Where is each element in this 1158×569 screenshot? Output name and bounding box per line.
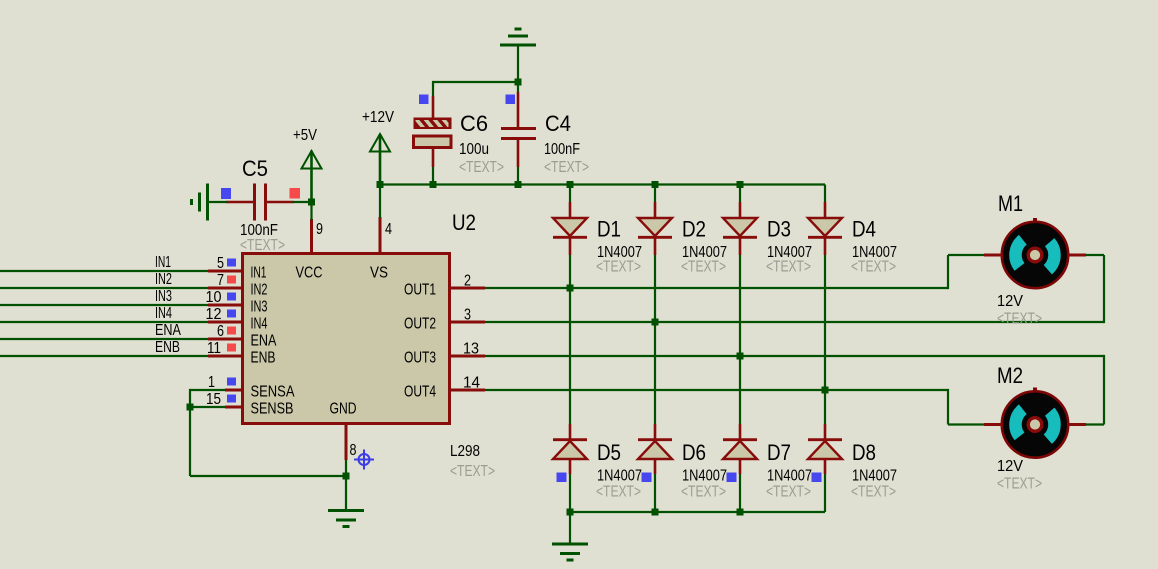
diode D2 (1N4007, cathode down) <box>638 218 672 236</box>
diode D1 (1N4007, cathode down) <box>553 218 587 236</box>
wire GND pin to ground <box>345 460 347 476</box>
svg-text:3: 3 <box>464 307 471 324</box>
ground at top (flipped up) <box>500 44 536 47</box>
ground at C5 (rotated left) <box>206 184 209 221</box>
marker square D5 <box>557 473 567 483</box>
svg-text:<TEXT>: <TEXT> <box>766 259 811 276</box>
svg-text:D4: D4 <box>852 217 876 242</box>
capacitor C5 right pin <box>264 201 294 204</box>
pin marker square IN3 <box>227 293 236 301</box>
U2 pin SENSB stub (pin 15) <box>225 406 241 409</box>
wire net ENB <box>0 355 208 357</box>
U2 pin VS stub (pin 4) <box>379 217 382 253</box>
wire +5V node to pin 9 <box>310 201 312 220</box>
svg-text:13: 13 <box>463 341 479 358</box>
U2 pin OUT3 stub (pin 13) <box>450 355 485 358</box>
svg-text:1N4007: 1N4007 <box>767 468 812 485</box>
svg-text:GND: GND <box>330 401 357 418</box>
svg-text:5: 5 <box>217 255 224 272</box>
svg-text:12V: 12V <box>997 458 1023 475</box>
marker square C4 <box>506 95 516 105</box>
svg-text:1N4007: 1N4007 <box>682 468 727 485</box>
motor M2 <box>1002 391 1068 457</box>
svg-text:OUT4: OUT4 <box>404 384 436 401</box>
ground under U2 <box>328 509 364 512</box>
wire rail to diode D4 <box>824 185 826 203</box>
svg-text:OUT1: OUT1 <box>404 282 436 299</box>
wire rail to diode D2 <box>654 185 656 203</box>
wire D7 to ground rail <box>739 474 741 512</box>
wire D8 to ground rail <box>824 474 826 512</box>
wire net IN4 <box>0 321 208 323</box>
svg-text:<TEXT>: <TEXT> <box>851 484 896 501</box>
marker square C5 left <box>221 188 231 199</box>
svg-text:VCC: VCC <box>296 265 323 282</box>
capacitor C4 top lead <box>517 82 519 92</box>
U2 pin IN2 stub (pin 7) <box>208 287 241 290</box>
junction rail at VS <box>377 181 384 188</box>
U2 pin OUT2 stub (pin 3) <box>450 321 485 324</box>
capacitor C4 bottom lead <box>517 139 520 167</box>
svg-text:ENB: ENB <box>155 339 180 356</box>
diode D8 top lead <box>824 424 827 441</box>
wire net IN3 <box>0 304 208 306</box>
svg-text:ENB: ENB <box>251 350 276 367</box>
marker square C6 <box>419 95 429 105</box>
marker square D6 <box>642 473 652 483</box>
wire D4 column down <box>824 255 826 424</box>
marker square C5 right <box>290 188 301 199</box>
svg-text:IN4: IN4 <box>251 316 268 333</box>
U2 pin ENB stub (pin 11) <box>208 355 241 358</box>
U2 pin IN3 stub (pin 10) <box>208 304 241 307</box>
wire net ENA <box>0 338 208 340</box>
svg-text:SENSA: SENSA <box>251 384 295 401</box>
svg-text:<TEXT>: <TEXT> <box>766 484 811 501</box>
diode D5 (1N4007, cathode up) <box>553 441 587 459</box>
U2 pin IN1 stub (pin 5) <box>208 270 241 273</box>
U2 pin OUT1 stub (pin 2) <box>450 287 485 290</box>
diode D7 top lead <box>739 424 742 441</box>
diode D7 (1N4007, cathode up) <box>723 441 757 459</box>
wire rail to diode D3 <box>739 185 741 203</box>
svg-text:SENSB: SENSB <box>251 401 294 418</box>
motor M2 right pin <box>1068 423 1086 426</box>
svg-text:D7: D7 <box>767 440 791 465</box>
junction D3 column at OUT3 <box>737 353 744 360</box>
wire D2 column down <box>654 255 656 424</box>
svg-text:9: 9 <box>316 221 323 238</box>
svg-text:<TEXT>: <TEXT> <box>681 259 726 276</box>
svg-text:100nF: 100nF <box>544 141 580 158</box>
svg-text:IN1: IN1 <box>155 254 171 271</box>
wire D3 column down <box>739 255 741 424</box>
svg-text:100u: 100u <box>459 141 489 158</box>
svg-text:ENA: ENA <box>155 322 181 339</box>
svg-text:U2: U2 <box>452 210 476 235</box>
junction D4 column at OUT4 <box>822 387 829 394</box>
svg-text:D2: D2 <box>682 217 706 242</box>
wire +12V rail <box>380 183 825 185</box>
U2 pin IN4 stub (pin 12) <box>208 321 241 324</box>
diode D6 (1N4007, cathode up) <box>638 441 672 459</box>
motor M1 <box>1002 222 1068 288</box>
capacitor C6 bottom lead <box>432 148 435 168</box>
wire C5 to ground <box>208 201 227 203</box>
wire D5 to ground rail <box>569 474 571 512</box>
svg-text:<TEXT>: <TEXT> <box>596 484 641 501</box>
origin marker (blue crosshair) <box>354 450 374 470</box>
capacitor C5 left pin <box>226 201 253 204</box>
wire SENSB <box>190 406 225 408</box>
svg-text:<TEXT>: <TEXT> <box>997 476 1042 493</box>
svg-text:C5: C5 <box>242 156 268 181</box>
wire D1 column down <box>569 255 571 424</box>
svg-text:D6: D6 <box>682 440 706 465</box>
svg-text:M1: M1 <box>998 191 1023 216</box>
svg-text:<TEXT>: <TEXT> <box>997 311 1042 328</box>
capacitor C6 positive plate (hatched) <box>412 114 453 131</box>
svg-text:+5V: +5V <box>293 127 317 144</box>
svg-text:IN1: IN1 <box>251 265 267 282</box>
junction ground rail at D5 <box>567 509 574 516</box>
svg-text:M2: M2 <box>997 363 1023 388</box>
junction +5V / C5 / pin9 <box>308 199 315 206</box>
diode D4 (1N4007, cathode down) <box>808 218 842 236</box>
ground at bottom rail <box>552 543 588 546</box>
diode D4 top lead <box>824 202 827 219</box>
svg-text:D5: D5 <box>597 440 621 465</box>
svg-text:<TEXT>: <TEXT> <box>450 463 495 480</box>
junction rail at C6 <box>430 181 437 188</box>
junction D2 column at OUT2 <box>652 319 659 326</box>
wire SENSA to SENSB junction <box>190 389 225 391</box>
svg-text:C6: C6 <box>460 111 488 136</box>
junction rail at C4 <box>515 181 522 188</box>
svg-text:1N4007: 1N4007 <box>852 468 897 485</box>
diode D6 top lead <box>654 424 657 441</box>
junction ground rail at D6 <box>652 509 659 516</box>
svg-text:L298: L298 <box>450 443 480 460</box>
diode D4 bottom lead <box>824 238 827 255</box>
wire top horizontal C6/C4 <box>433 81 518 83</box>
U2 pin SENSA stub (pin 1) <box>225 389 241 392</box>
wire ground stem bottom <box>569 512 571 544</box>
svg-text:<TEXT>: <TEXT> <box>240 237 285 254</box>
svg-text:<TEXT>: <TEXT> <box>851 259 896 276</box>
motor M1 right pin <box>1068 254 1086 257</box>
power +5V symbol <box>310 151 313 203</box>
svg-text:14: 14 <box>463 375 480 392</box>
svg-text:OUT2: OUT2 <box>404 316 436 333</box>
svg-text:8: 8 <box>350 442 357 459</box>
svg-text:<TEXT>: <TEXT> <box>681 484 726 501</box>
wire OUT3 to M2 return <box>485 355 1104 357</box>
junction rail at D3 <box>737 181 744 188</box>
svg-text:VS: VS <box>370 265 388 282</box>
diode D1 top lead <box>569 202 572 219</box>
svg-text:IN4: IN4 <box>155 305 172 322</box>
junction rail at D1 <box>567 181 574 188</box>
svg-text:OUT3: OUT3 <box>404 350 436 367</box>
op-amp U2 L298 body <box>243 254 450 424</box>
diode D3 top lead <box>739 202 742 219</box>
wire OUT4 to M2 <box>485 389 948 391</box>
wire OUT1 to M1 <box>485 287 948 289</box>
wire bottom ground rail <box>570 511 825 513</box>
svg-text:D1: D1 <box>597 217 621 242</box>
diode D8 (1N4007, cathode up) <box>808 441 842 459</box>
svg-text:<TEXT>: <TEXT> <box>596 259 641 276</box>
svg-text:7: 7 <box>217 272 224 289</box>
wire top ground stem <box>517 46 519 82</box>
pin marker square IN2 <box>227 276 236 284</box>
pin marker square SENSB <box>227 395 236 403</box>
svg-text:12V: 12V <box>997 293 1023 310</box>
svg-text:<TEXT>: <TEXT> <box>459 159 504 176</box>
diode D6 bottom lead <box>654 458 657 474</box>
svg-text:IN3: IN3 <box>155 288 172 305</box>
U2 pin ENA stub (pin 6) <box>208 338 241 341</box>
power +12V symbol <box>379 134 382 185</box>
diode D3 (1N4007, cathode down) <box>723 218 757 236</box>
svg-text:10: 10 <box>206 289 222 306</box>
diode D2 bottom lead <box>654 238 657 255</box>
svg-text:<TEXT>: <TEXT> <box>544 159 589 176</box>
diode D3 bottom lead <box>739 238 742 255</box>
svg-text:4: 4 <box>385 221 392 238</box>
junction D1 column at OUT1 <box>567 285 574 292</box>
diode D7 bottom lead <box>739 458 742 474</box>
svg-text:ENA: ENA <box>251 333 277 350</box>
wire +12V rail to pin 4 <box>379 185 381 219</box>
svg-text:1N4007: 1N4007 <box>597 468 642 485</box>
wire net IN2 <box>0 287 208 289</box>
capacitor C5 plates <box>253 184 256 221</box>
svg-text:11: 11 <box>207 340 221 357</box>
U2 pin VCC stub (pin 9) <box>310 219 313 253</box>
pin marker square ENB <box>227 344 236 352</box>
diode D2 top lead <box>654 202 657 219</box>
diode D8 bottom lead <box>824 458 827 474</box>
pin marker square IN4 <box>227 310 236 318</box>
marker square D8 <box>812 473 822 483</box>
svg-text:D3: D3 <box>767 217 791 242</box>
diode D5 top lead <box>569 424 572 441</box>
svg-text:D8: D8 <box>852 440 876 465</box>
capacitor C6 top lead <box>432 81 434 96</box>
U2 pin OUT4 stub (pin 14) <box>450 389 485 392</box>
pin marker square ENA <box>227 327 236 335</box>
capacitor C4 plates <box>501 127 536 130</box>
svg-text:1: 1 <box>208 374 215 391</box>
svg-text:IN3: IN3 <box>251 299 268 316</box>
svg-text:15: 15 <box>206 391 221 408</box>
svg-text:2: 2 <box>464 273 471 290</box>
svg-text:+12V: +12V <box>362 109 394 126</box>
pin marker square IN1 <box>227 259 236 267</box>
wire D6 to ground rail <box>654 474 656 512</box>
motor M1 left pin <box>984 254 1002 257</box>
svg-text:6: 6 <box>217 323 224 340</box>
diode D1 bottom lead <box>569 238 572 255</box>
junction GND pin / sense wire <box>343 473 350 480</box>
wire net IN1 (left input) <box>0 270 208 272</box>
svg-text:C4: C4 <box>545 111 571 136</box>
svg-text:IN2: IN2 <box>251 282 268 299</box>
junction top ground / C4 / C6 <box>515 79 522 86</box>
pin marker square SENSA <box>227 378 236 386</box>
svg-text:IN2: IN2 <box>155 271 172 288</box>
wire to chip ground symbol <box>345 476 347 510</box>
marker square D7 <box>727 473 737 483</box>
diode D5 bottom lead <box>569 458 572 474</box>
junction rail at D2 <box>652 181 659 188</box>
U2 pin GND stub (pin 8) <box>345 424 348 460</box>
wire OUT2 to M1 return <box>485 321 1104 323</box>
wire C5 to +5V node <box>293 201 312 203</box>
junction ground rail at D7 <box>737 509 744 516</box>
motor M2 left pin <box>984 423 1002 426</box>
svg-text:12: 12 <box>206 306 222 323</box>
capacitor C6 body plate <box>414 136 452 148</box>
wire sense ground run <box>190 475 346 477</box>
junction SENSA/SENSB <box>187 404 194 411</box>
wire rail to diode D1 <box>569 185 571 203</box>
